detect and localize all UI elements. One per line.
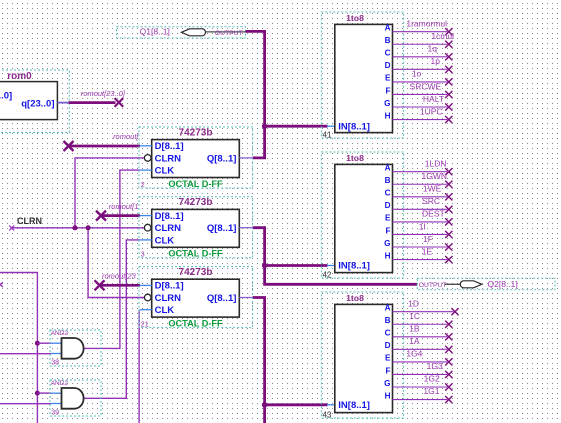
svg-text:Q[8..1]: Q[8..1]: [207, 223, 237, 234]
svg-text:1to8: 1to8: [346, 293, 364, 303]
wire pin C of U43 (1B): [393, 336, 448, 338]
svg-text:AND2: AND2: [51, 330, 69, 337]
svg-text:CLRN: CLRN: [17, 216, 42, 226]
svg-text:A: A: [385, 304, 391, 313]
svg-text:74273b: 74273b: [179, 127, 213, 138]
svg-text:42: 42: [323, 270, 332, 279]
node X 1G4: [445, 358, 452, 365]
svg-text:CLRN: CLRN: [155, 153, 182, 164]
svg-text:CLRN: CLRN: [155, 293, 182, 304]
svg-text:romout[: romout[: [113, 132, 139, 141]
wire bus to IN of 1to8 #42: [265, 264, 328, 267]
wire pin G of U41 (HALT): [393, 106, 448, 108]
wire bus to IN of 1to8 #41: [265, 125, 328, 128]
svg-text:Q[8..1]: Q[8..1]: [207, 293, 237, 304]
svg-text:1o: 1o: [412, 69, 422, 79]
wire pin B of U43 (1C): [393, 323, 448, 325]
node X romout (1): [96, 211, 106, 221]
svg-text:3: 3: [141, 252, 145, 259]
junction CLRN/up: [73, 225, 78, 230]
node X 1UPC: [445, 116, 452, 123]
svg-text:1G3: 1G3: [427, 361, 443, 371]
and-gate U39 AND2: [50, 380, 101, 417]
wire pin G of U42 (1F): [393, 246, 448, 248]
svg-text:romout[23: romout[23: [102, 272, 137, 281]
svg-text:F: F: [385, 366, 390, 375]
wire pin E of U43 (1G4): [393, 361, 448, 363]
svg-text:IN[8..1]: IN[8..1]: [338, 400, 370, 411]
svg-text:1p: 1p: [431, 56, 441, 66]
svg-text:1to8: 1to8: [346, 153, 364, 163]
node X 1q: [445, 53, 452, 60]
svg-text:E: E: [385, 214, 391, 223]
svg-text:IN[8..1]: IN[8..1]: [338, 261, 370, 272]
svg-text:1q: 1q: [428, 44, 438, 54]
node X 1G2: [445, 383, 452, 390]
svg-text:Q1[8..1]: Q1[8..1]: [140, 27, 170, 37]
flip-flop U21 74273b OCTAL D-FF: [139, 267, 253, 329]
decoder U42 1to8: [321, 152, 403, 279]
svg-text:1D: 1D: [408, 298, 419, 308]
svg-text:41: 41: [323, 130, 332, 139]
svg-text:A: A: [385, 24, 391, 33]
wire CLRN net: [12, 227, 145, 229]
svg-text:D[8..1]: D[8..1]: [155, 141, 184, 152]
svg-text:D: D: [385, 201, 391, 210]
flip-flop U2 74273b OCTAL D-FF: [139, 127, 253, 189]
svg-text:1A: 1A: [409, 336, 420, 346]
wire pin B of U41 (1cmul): [393, 43, 448, 45]
wire pin A of U43 (1D): [393, 311, 454, 313]
svg-text:..0]: ..0]: [0, 91, 12, 102]
svg-text:1C: 1C: [409, 311, 420, 321]
node X 1B: [445, 333, 452, 340]
node X 1ramormul: [445, 28, 452, 35]
svg-text:E: E: [385, 74, 391, 83]
node X 1A: [445, 346, 452, 353]
node X 1LDN: [445, 168, 452, 175]
node X SRC: [445, 206, 452, 213]
decoder U43 1to8: [321, 292, 403, 419]
svg-text:F: F: [385, 226, 390, 235]
svg-text:1B: 1B: [409, 323, 420, 333]
svg-text:CLK: CLK: [155, 305, 175, 316]
svg-text:1GWN: 1GWN: [422, 171, 448, 181]
svg-text:SRC: SRC: [422, 196, 440, 206]
node X 1D: [451, 308, 458, 315]
wire pin H of U43 (1G1): [393, 399, 448, 401]
wire pin D of U42 (SRC): [393, 208, 448, 210]
and-gate U38 AND2: [50, 330, 101, 367]
node X 1cmul: [445, 41, 452, 48]
svg-text:21: 21: [141, 322, 149, 329]
svg-text:38: 38: [51, 359, 59, 366]
svg-text:C: C: [385, 189, 391, 198]
node partial x at left edge: [0, 282, 3, 287]
junction node IN43: [262, 402, 267, 407]
svg-text:1cmul: 1cmul: [431, 31, 454, 41]
wire pin E of U42 (DEST): [393, 221, 448, 223]
flip-flop U3 74273b OCTAL D-FF: [139, 197, 253, 259]
svg-text:39: 39: [51, 409, 59, 416]
svg-text:D[8..1]: D[8..1]: [155, 211, 184, 222]
svg-text:OCTAL D-FF: OCTAL D-FF: [168, 319, 223, 329]
svg-text:OCTAL D-FF: OCTAL D-FF: [168, 179, 223, 189]
svg-text:F: F: [385, 86, 390, 95]
wire CLK of 74273b #21 going down: [138, 310, 140, 423]
wire pin D of U41 (1p): [393, 68, 448, 70]
wire AND38 bottom input from left: [0, 353, 51, 355]
node X 1F: [445, 243, 452, 250]
svg-text:G: G: [384, 379, 390, 388]
svg-text:1ramormul: 1ramormul: [406, 19, 447, 29]
wire romout[23..0]: [57, 102, 68, 104]
svg-text:romout[23..0]: romout[23..0]: [81, 89, 126, 98]
svg-text:H: H: [385, 111, 391, 120]
svg-text:D: D: [385, 61, 391, 70]
svg-text:OUTPUT: OUTPUT: [215, 30, 243, 37]
node romout[23..0] dangling X: [115, 98, 124, 107]
node X 1I: [445, 231, 452, 238]
wire romout slice to D of 74273b (2): [100, 284, 141, 287]
svg-text:H: H: [385, 391, 391, 400]
wire to AND38 top input: [37, 342, 51, 344]
svg-text:romout[1: romout[1: [109, 202, 139, 211]
wire pin F of U43 (1G3): [393, 373, 448, 375]
svg-text:B: B: [385, 36, 391, 45]
svg-text:74273b: 74273b: [179, 197, 213, 208]
wire pin F of U41 (SRCWE): [393, 93, 448, 95]
wire bus to OUTPUT Q2: [265, 266, 418, 285]
wire left net to AND gate inputs: [0, 273, 37, 423]
svg-text:Q2[8..1]: Q2[8..1]: [488, 279, 518, 289]
node X DEST: [445, 218, 452, 225]
svg-text:OCTAL D-FF: OCTAL D-FF: [168, 249, 223, 259]
svg-text:1G4: 1G4: [406, 349, 422, 359]
svg-text:2: 2: [141, 182, 145, 189]
memory block rom0: [0, 70, 69, 133]
output connector Q2[8..1]: [417, 278, 555, 290]
wire pin H of U42 (1E): [393, 259, 448, 261]
svg-text:C: C: [385, 49, 391, 58]
node X 1E: [445, 256, 452, 263]
junction node IN42: [262, 263, 267, 268]
node X 1C: [445, 321, 452, 328]
svg-text:E: E: [385, 354, 391, 363]
wire romout slice to D of 74273b (0): [69, 145, 141, 148]
svg-text:G: G: [384, 99, 390, 108]
wire bus Q of 74273b #3 down to junction: [253, 228, 265, 266]
svg-text:rom0: rom0: [7, 71, 32, 82]
wire bus Q1 output (top): [246, 31, 265, 126]
svg-text:CLK: CLK: [155, 235, 175, 246]
wire pin B of U42 (1GWN): [393, 183, 448, 185]
node X SRCWE: [445, 91, 452, 98]
output connector Q1[8..1]: [117, 27, 246, 38]
wire romout slice to D of 74273b (1): [101, 214, 140, 217]
svg-text:1UPC: 1UPC: [420, 106, 443, 116]
svg-text:1G2: 1G2: [424, 374, 440, 384]
node X 1WE: [445, 193, 452, 200]
svg-text:43: 43: [323, 410, 332, 419]
wire pin G of U43 (1G2): [393, 386, 448, 388]
svg-text:1LDN: 1LDN: [425, 159, 447, 169]
svg-text:D[8..1]: D[8..1]: [155, 281, 184, 292]
svg-text:IN[8..1]: IN[8..1]: [338, 121, 370, 132]
node X romout (2): [95, 280, 105, 290]
wire bus Q of 74273b #2 up to junction: [253, 128, 265, 158]
junction AND38 input: [35, 341, 40, 346]
decoder U41 1to8: [321, 12, 403, 139]
wire pin A of U41 (1ramormul): [393, 31, 448, 33]
node X 1p: [445, 66, 452, 73]
node X HALT: [445, 103, 452, 110]
wire AND2 #39 output to CLK of 74273b #3: [84, 240, 140, 398]
wire pin D of U43 (1A): [393, 348, 448, 350]
node X 1G1: [445, 396, 452, 403]
wire pin A of U42 (1LDN): [393, 171, 448, 173]
wire bus continuing below: [263, 405, 266, 423]
svg-text:DEST: DEST: [422, 209, 445, 219]
svg-text:SRCWE: SRCWE: [410, 81, 442, 91]
junction AND39 input: [35, 391, 40, 396]
wire AND39 bottom input from left: [0, 403, 51, 405]
node X romout (0): [64, 141, 74, 151]
svg-text:G: G: [384, 239, 390, 248]
svg-text:1F: 1F: [423, 234, 433, 244]
junction node IN41: [262, 124, 267, 129]
svg-text:HALT: HALT: [423, 94, 444, 104]
svg-text:C: C: [385, 329, 391, 338]
svg-text:A: A: [385, 164, 391, 173]
junction CLRN/down: [86, 225, 91, 230]
svg-text:Q[8..1]: Q[8..1]: [207, 153, 237, 164]
wire AND2 #38 output to CLK of 74273b #2: [84, 170, 140, 348]
svg-text:1WE: 1WE: [423, 184, 442, 194]
wire bus Q of 74273b #21 down to IN of 1to8 #43: [253, 298, 265, 405]
wire CLRN branch up to 74273b #2: [75, 158, 144, 228]
wire pin E of U41 (1o): [393, 81, 448, 83]
wire pin F of U42 (1I): [393, 233, 448, 235]
svg-text:1to8: 1to8: [346, 13, 364, 23]
node X 1GWN: [445, 181, 452, 188]
svg-text:B: B: [385, 176, 391, 185]
svg-text:OUTPUT: OUTPUT: [419, 282, 447, 289]
wire pin C of U41 (1q): [393, 56, 448, 58]
svg-text:1G1: 1G1: [423, 386, 439, 396]
svg-text:CLRN: CLRN: [155, 223, 182, 234]
node CLRN left terminator: [9, 226, 14, 231]
wire CLRN branch down to 74273b #21: [88, 228, 144, 298]
wire pin C of U42 (1WE): [393, 196, 448, 198]
svg-text:1I: 1I: [419, 221, 426, 231]
svg-text:B: B: [385, 316, 391, 325]
svg-text:q[23..0]: q[23..0]: [21, 98, 54, 109]
wire pin H of U41 (1UPC): [393, 119, 448, 121]
svg-text:D: D: [385, 341, 391, 350]
node X 1o: [445, 78, 452, 85]
svg-text:AND2: AND2: [51, 380, 69, 387]
node X 1G3: [445, 371, 452, 378]
svg-text:74273b: 74273b: [179, 267, 213, 278]
svg-text:H: H: [385, 251, 391, 260]
svg-text:1E: 1E: [422, 246, 433, 256]
wire to AND39 top input: [37, 392, 51, 394]
svg-text:CLK: CLK: [155, 166, 175, 177]
